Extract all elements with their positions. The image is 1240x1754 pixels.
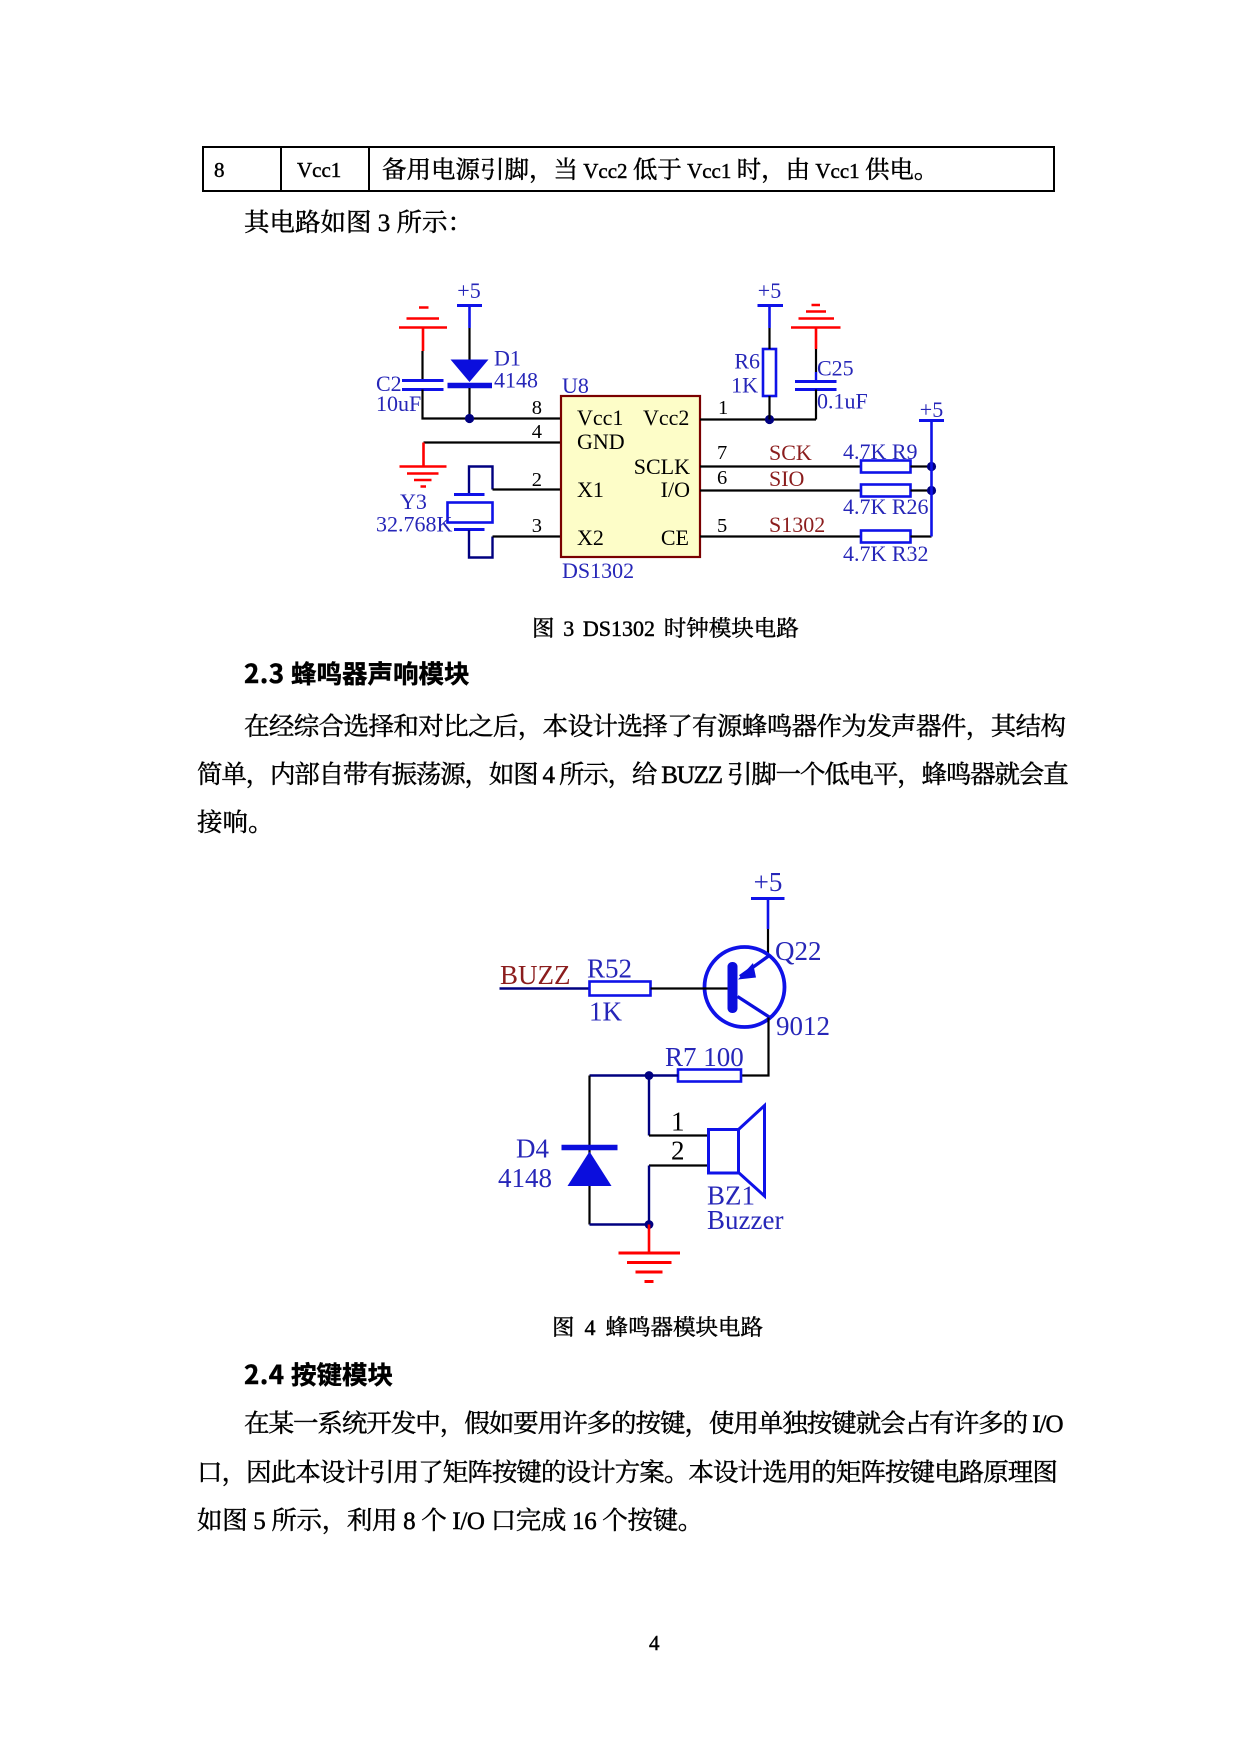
+5 bar and stem left [457,304,482,307]
wire bottom D4 to ground node [590,1223,650,1225]
wire C25 bottom to pin1 net [815,390,817,420]
label Y3 32.768K [376,489,453,537]
+5 bar and stem middle [758,304,784,307]
wire pin 1 Vcc2 net [700,418,816,420]
wire BUZZ to R52 [500,987,590,989]
pin number 1 [718,397,728,419]
wire R26 to +5 rail [911,489,932,491]
svg-text:5: 5 [717,515,727,537]
svg-text:DS1302: DS1302 [562,558,634,583]
paragraph 2.4 line 2 [197,1459,1057,1485]
pin number 2 [532,469,542,491]
wire to diode [468,328,470,360]
net label BUZZ [500,960,571,990]
wire +5 to emitter [767,929,769,955]
svg-text:1K: 1K [589,997,623,1027]
pin number 2 [671,1136,685,1166]
label R7 100 [665,1042,744,1072]
junction node R9 rail [927,462,936,471]
wire C25 top stem [815,372,817,382]
svg-text:+5: +5 [754,867,783,897]
wire collector down [741,1018,769,1076]
svg-text:BUZZ: BUZZ [500,960,571,990]
svg-text:1K: 1K [731,373,758,398]
+5 supply right [920,397,943,422]
figure 4: buzzer module schematic [490,865,840,1295]
svg-text:R52: R52 [587,954,632,984]
+5 rail stem right [930,422,933,537]
diode D1 4148 [448,360,493,386]
svg-text:X1: X1 [577,477,604,502]
label R52 1K [587,954,632,1027]
pin number 7 [717,442,727,464]
wire pin 7 SCLK net [700,465,861,467]
+5 supply [754,867,783,897]
wire left branch down through D4 [588,1076,590,1225]
power ground (inverted) above C25 [791,305,841,349]
label 4.7K R26 [843,494,929,519]
svg-text:10uF: 10uF [376,391,421,416]
paragraph 2.3 line 3 [197,809,274,835]
svg-text:4: 4 [532,421,542,443]
svg-text:I/O: I/O [661,477,690,502]
label U8 [562,373,589,398]
diode D4 cathode bar [562,1145,618,1151]
pin name GND [577,429,625,454]
pin name X2 [577,525,604,550]
label C25 0.1uF [817,356,868,414]
transistor emitter with arrow [740,955,770,977]
capacitor C2 [402,381,444,390]
pin number 3 [532,515,542,537]
pin name Vcc1 [577,405,623,430]
wire pin 5 CE net [700,535,861,537]
wire buzzer pin 2 to ground [649,1164,709,1166]
svg-text:R6: R6 [734,349,760,374]
pin number 4 [532,421,542,443]
net label SIO [769,466,804,491]
svg-text:4148: 4148 [498,1163,552,1193]
label C2 10uF [376,371,421,416]
+5 supply left [457,278,480,303]
resistor R52 [590,982,651,996]
svg-text:2: 2 [671,1136,685,1166]
svg-text:+5: +5 [920,397,943,422]
svg-text:Buzzer: Buzzer [707,1205,783,1235]
svg-text:1: 1 [671,1107,685,1137]
label 4.7K R9 [843,439,918,464]
paragraph: 其电路如图 3 所示： [244,209,473,235]
resistor R6 [763,349,776,396]
wire pin 4 GND net [424,441,562,443]
junction node ground [645,1220,654,1229]
svg-text:U8: U8 [562,373,589,398]
wire C2 top stem [421,351,423,379]
svg-text:+5: +5 [457,278,480,303]
earth ground [400,467,447,487]
svg-text:SIO: SIO [769,466,804,491]
label D1 4148 [494,346,538,393]
wire R6 top [768,328,770,349]
svg-text:Y3: Y3 [400,489,427,514]
label BZ1 Buzzer [707,1181,783,1236]
wire R32 to +5 rail [911,535,932,537]
paragraph 2.3 line 2 [197,761,1067,787]
label Q22 [775,936,822,966]
svg-text:7: 7 [717,442,727,464]
paragraph 2.4 line 3 [197,1507,703,1533]
transistor base bar [728,962,738,1013]
figure 4 caption [552,1315,763,1338]
crystal Y3 bottom loop wire [469,530,493,558]
buzzer BZ1 body [709,1130,739,1174]
svg-text:2: 2 [532,469,542,491]
pin name I/O [661,477,690,502]
svg-text:9012: 9012 [776,1011,830,1041]
svg-text:3: 3 [532,515,542,537]
+5 bar and stem [751,897,785,900]
paragraph 2.3 line 1 [244,713,1065,739]
svg-text:0.1uF: 0.1uF [817,389,868,414]
svg-text:8: 8 [532,397,542,419]
svg-text:C25: C25 [817,356,854,381]
wire branch to buzzer pin 1 [648,1076,650,1136]
resistor R9 [861,461,911,473]
resistor R26 [861,485,911,497]
net label SCK [769,440,812,465]
pin name Vcc2 [643,405,689,430]
pin number 8 [532,397,542,419]
svg-text:4.7K R32: 4.7K R32 [843,541,929,566]
table row: pin 8 Vcc1 description [202,146,1055,192]
+5 bar right [919,419,944,422]
wire pin 3 [493,535,562,537]
svg-text:CE: CE [661,525,689,550]
junction node R26 rail [927,486,936,495]
section heading 2.3 [244,660,470,686]
svg-text:32.768K: 32.768K [376,512,453,537]
crystal Y3 [448,495,493,530]
page number [649,1632,660,1653]
label DS1302 [562,558,634,583]
svg-text:+5: +5 [758,278,781,303]
pin name CE [661,525,689,550]
label R6 1K [731,349,760,398]
svg-text:SCLK: SCLK [634,454,690,479]
earth ground stem [422,443,425,467]
transistor collector [738,997,771,1018]
earth ground stem [648,1225,651,1253]
wire R9 to +5 rail [911,465,932,467]
svg-text:D4: D4 [516,1134,549,1164]
pin number 1 [671,1107,685,1137]
wire pin 2 [493,488,562,490]
svg-text:S1302: S1302 [769,512,825,537]
svg-text:Q22: Q22 [775,936,822,966]
svg-text:4.7K R26: 4.7K R26 [843,494,929,519]
+5 supply middle [758,278,781,303]
pin number 5 [717,515,727,537]
svg-text:X2: X2 [577,525,604,550]
net label S1302 [769,512,825,537]
svg-text:Vcc2: Vcc2 [643,405,689,430]
capacitor C25 [795,382,837,390]
resistor R32 [861,531,911,543]
label 4.7K R32 [843,541,929,566]
IC U8 DS1302 body [561,396,700,557]
junction node pin1/R6 [765,415,774,424]
junction node at D1/C2 [465,414,474,423]
wire pin 6 I/O net [700,489,861,491]
svg-text:4148: 4148 [494,368,538,393]
paragraph 2.4 line 1 [244,1410,1063,1436]
label 9012 [776,1011,830,1041]
wire R7 left to branch [590,1074,679,1076]
wire pin 8 net [423,390,562,419]
pin name SCLK [634,454,690,479]
resistor R7 [678,1070,741,1082]
svg-text:SCK: SCK [769,440,812,465]
junction node R7 branch [645,1071,654,1080]
buzzer BZ1 horn [739,1106,765,1197]
transistor Q2 circle [705,947,785,1027]
earth ground [619,1253,681,1282]
svg-text:1: 1 [718,397,728,419]
svg-text:GND: GND [577,429,625,454]
diode D4 triangle [568,1152,612,1187]
wire R6 bottom [768,396,770,420]
figure 3: DS1302 clock module schematic [370,278,960,588]
pin number 6 [717,467,727,489]
label D4 4148 [498,1134,552,1194]
power ground (inverted) above C2 [399,308,447,352]
pin name X1 [577,477,604,502]
wire R52 to base [651,987,728,989]
figure 3 caption [532,616,799,639]
svg-text:6: 6 [717,467,727,489]
section heading 2.4 [244,1361,393,1387]
crystal Y3 top loop wire [469,467,493,495]
wire diode to node [468,388,470,419]
svg-text:4.7K R9: 4.7K R9 [843,439,918,464]
svg-text:Vcc1: Vcc1 [577,405,623,430]
svg-text:R7 100: R7 100 [665,1042,744,1072]
